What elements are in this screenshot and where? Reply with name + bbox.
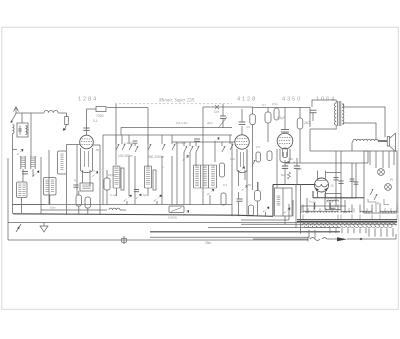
svg-text:6 μΩ: 6 μΩ bbox=[309, 200, 316, 204]
svg-text:0,1: 0,1 bbox=[93, 119, 98, 123]
svg-text:4,5: 4,5 bbox=[246, 125, 250, 129]
svg-text:800-2000m: 800-2000m bbox=[148, 155, 164, 159]
svg-text:Cm: Cm bbox=[214, 110, 219, 114]
svg-text:0,5MΩ: 0,5MΩ bbox=[168, 216, 178, 220]
svg-text:30m: 30m bbox=[207, 121, 213, 125]
svg-text:Ph: Ph bbox=[377, 202, 381, 206]
svg-text:50: 50 bbox=[96, 148, 100, 152]
svg-text:10m: 10m bbox=[50, 206, 56, 210]
svg-text:0,1μF: 0,1μF bbox=[110, 193, 117, 197]
svg-text:2kΩ: 2kΩ bbox=[304, 121, 310, 125]
svg-text:4μF: 4μF bbox=[288, 157, 293, 161]
svg-text:8μF: 8μF bbox=[297, 167, 302, 171]
svg-text:Minair, Super 228,: Minair, Super 228, bbox=[158, 99, 195, 104]
svg-text:50: 50 bbox=[248, 183, 252, 187]
svg-text:1284: 1284 bbox=[78, 97, 98, 103]
svg-text:0,1: 0,1 bbox=[262, 103, 266, 107]
svg-text:4128: 4128 bbox=[237, 97, 257, 103]
svg-text:G: G bbox=[331, 183, 334, 188]
svg-text:1064: 1064 bbox=[316, 97, 336, 103]
svg-text:28m: 28m bbox=[205, 241, 212, 245]
svg-text:+: + bbox=[281, 161, 283, 165]
svg-text:α: α bbox=[162, 165, 164, 169]
svg-text:0,3: 0,3 bbox=[223, 183, 227, 187]
svg-text:7000: 7000 bbox=[96, 114, 104, 118]
svg-text:245Ω: 245Ω bbox=[108, 173, 116, 177]
svg-text:1μF: 1μF bbox=[230, 157, 235, 161]
svg-text:α 250n: α 250n bbox=[124, 141, 134, 145]
svg-text:Pl: Pl bbox=[390, 178, 393, 182]
svg-text:+: + bbox=[293, 161, 295, 165]
svg-text:0,1μF: 0,1μF bbox=[277, 116, 285, 120]
svg-text:1μ: 1μ bbox=[74, 178, 78, 182]
svg-text:8μF: 8μF bbox=[281, 173, 286, 177]
svg-text:100-250m: 100-250m bbox=[118, 154, 133, 158]
svg-text:0,1μF: 0,1μF bbox=[140, 193, 147, 197]
svg-text:4350: 4350 bbox=[282, 97, 302, 103]
svg-text:2,5: 2,5 bbox=[256, 145, 260, 149]
svg-text:6 μm: 6 μm bbox=[326, 200, 333, 204]
svg-text:0,5μ: 0,5μ bbox=[272, 102, 278, 106]
svg-text:V: V bbox=[93, 169, 95, 173]
svg-text:0,5-1,5m: 0,5-1,5m bbox=[176, 121, 188, 125]
